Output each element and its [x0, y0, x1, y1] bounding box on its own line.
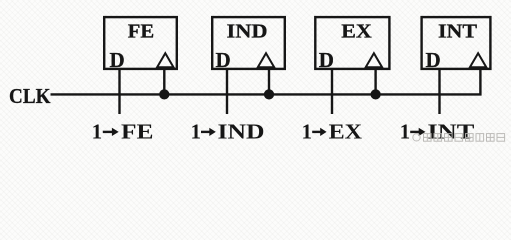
clock triangle of FE [157, 53, 173, 67]
node label 1 to INT [400, 120, 475, 144]
wire INT D input [438, 70, 440, 115]
clock triangle of INT [470, 53, 486, 67]
wire FE clock [163, 70, 165, 95]
wire IND D input [226, 70, 228, 115]
junction dot IND clock on CLK [264, 89, 274, 99]
wire FE D input [118, 70, 120, 115]
node label 1 to IND [191, 120, 265, 144]
svg-text:CLK: CLK [9, 84, 51, 108]
svg-text:1: 1 [302, 120, 313, 144]
clock triangle of EX [366, 53, 382, 67]
svg-text:FE: FE [128, 21, 155, 43]
svg-text:D: D [319, 48, 334, 72]
svg-text:1: 1 [191, 120, 202, 144]
svg-text:1: 1 [92, 120, 103, 144]
svg-text:D: D [110, 48, 125, 72]
svg-text:EX: EX [329, 120, 363, 144]
svg-text:IND: IND [227, 21, 268, 43]
svg-text:EX: EX [341, 21, 372, 43]
clock triangle of IND [258, 53, 274, 67]
svg-text:D: D [426, 48, 441, 72]
wire CLK trunk [51, 70, 481, 95]
flip-flop FE box [104, 17, 177, 69]
svg-text:1: 1 [400, 120, 411, 144]
svg-text:INT: INT [438, 21, 477, 43]
wire EX D input [331, 70, 333, 115]
flip-flop IND box [212, 17, 285, 69]
junction dot EX clock on CLK [371, 89, 381, 99]
wire EX clock [374, 70, 376, 95]
flip-flop EX box [315, 17, 389, 69]
wire IND clock [268, 70, 270, 95]
svg-text:D: D [216, 48, 231, 72]
node label 1 to FE [92, 120, 154, 144]
junction dot FE clock on CLK [159, 89, 169, 99]
watermark [413, 134, 505, 142]
node label 1 to EX [302, 120, 363, 144]
svg-text:IND: IND [218, 120, 265, 144]
flip-flop INT box [422, 17, 491, 69]
svg-text:FE: FE [121, 120, 154, 144]
